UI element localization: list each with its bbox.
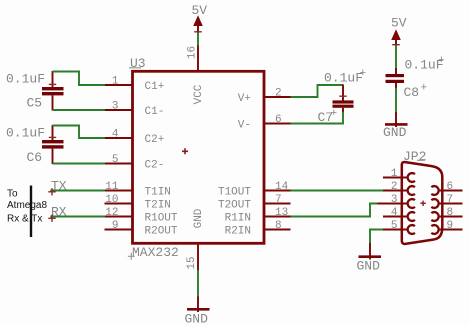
svg-text:4: 4 — [391, 207, 398, 219]
svg-text:7: 7 — [447, 194, 454, 206]
svg-text:14: 14 — [275, 181, 289, 193]
wire C5 to pin1 — [53, 72, 106, 86]
JP2 pin 6 socket arc — [431, 186, 438, 195]
pin 6 stub — [264, 123, 291, 125]
svg-text:8: 8 — [447, 207, 454, 219]
svg-text:R1OUT: R1OUT — [145, 212, 178, 224]
wire 5V to C8 — [395, 46, 397, 70]
svg-text:C2+: C2+ — [145, 134, 165, 146]
pin 11 stub — [105, 190, 134, 192]
svg-text:GND: GND — [383, 125, 407, 140]
svg-text:V-: V- — [238, 119, 251, 131]
svg-text:0.1uF: 0.1uF — [6, 71, 45, 86]
svg-text:5: 5 — [112, 154, 119, 166]
svg-text:10: 10 — [105, 194, 118, 206]
connector JP2 body outline — [402, 162, 443, 244]
wire pin13 to JP2 pin3 — [291, 204, 379, 217]
wire pin15 to GND — [197, 270, 199, 297]
C5 top lead — [52, 71, 54, 87]
pin 13 stub — [264, 216, 291, 218]
svg-text:C1+: C1+ — [145, 81, 165, 93]
wire C6 to pin5 — [53, 163, 106, 165]
svg-text:C8: C8 — [404, 85, 420, 100]
svg-text:0.1uF: 0.1uF — [6, 125, 45, 140]
JP2 pin 1 socket arc — [408, 173, 415, 182]
svg-text:+: + — [360, 68, 367, 80]
svg-text:+: + — [438, 55, 445, 67]
svg-text:4: 4 — [112, 129, 119, 141]
svg-text:5V: 5V — [192, 3, 208, 18]
wire RX to pin12 — [50, 216, 105, 218]
svg-text:GND: GND — [357, 259, 381, 274]
C6 top lead — [52, 125, 54, 140]
svg-text:T1IN: T1IN — [145, 186, 171, 198]
pin 4 stub — [105, 137, 134, 139]
RX net end cross — [48, 215, 55, 222]
svg-text:+: + — [331, 108, 338, 120]
wire pin2 to C7 — [291, 85, 344, 97]
svg-text:3: 3 — [112, 101, 119, 113]
JP2 pin 9 socket arc — [431, 225, 438, 234]
svg-text:12: 12 — [105, 207, 118, 219]
IC U3 MAX232 body — [133, 71, 265, 243]
svg-text:5: 5 — [391, 220, 398, 232]
svg-text:U3: U3 — [130, 56, 146, 71]
svg-text:7: 7 — [275, 194, 282, 206]
svg-text:C1-: C1- — [145, 106, 165, 118]
JP2 pin 7 socket arc — [431, 199, 438, 208]
JP2 pin 4 socket arc — [408, 212, 415, 221]
5V pin cross (right) — [392, 44, 400, 46]
pin 3 stub — [105, 109, 134, 111]
svg-text:5V: 5V — [391, 15, 407, 30]
JP2 pin 6 line — [438, 190, 463, 192]
capacitor C7 bottom plate — [333, 105, 354, 108]
pin 16 stub — [197, 45, 199, 72]
C5 polarity plus — [49, 83, 56, 85]
pin 8 stub — [264, 229, 291, 231]
wire 5V to pin16 — [197, 33, 199, 46]
svg-text:GND: GND — [193, 208, 205, 228]
GND stem (right) — [395, 112, 397, 127]
GND stem (bottom) — [197, 297, 199, 313]
svg-text:C2-: C2- — [145, 159, 165, 171]
C7 top lead — [342, 85, 344, 101]
JP2 pin 9 line — [438, 229, 463, 231]
svg-text:C6: C6 — [27, 150, 43, 165]
capacitor C6 bottom plate — [42, 145, 64, 148]
pin 14 stub — [264, 190, 291, 192]
pin 5 stub — [105, 163, 134, 165]
svg-text:+: + — [421, 83, 428, 95]
TX net end cross — [48, 188, 55, 195]
capacitor C6 top plate — [42, 140, 64, 143]
wire C5 to pin3 — [53, 109, 106, 111]
JP2 pin 5 socket arc — [408, 225, 415, 234]
JP2 pin 5 line — [383, 229, 408, 231]
svg-text:R1IN: R1IN — [225, 212, 251, 224]
C7 bottom lead — [342, 108, 344, 113]
pin 9 stub — [105, 229, 134, 231]
svg-text:11: 11 — [105, 181, 119, 193]
svg-text:9: 9 — [447, 220, 454, 232]
supply 5V arrow (right) — [391, 29, 401, 40]
svg-text:R2OUT: R2OUT — [145, 225, 178, 237]
svg-text:2: 2 — [275, 88, 282, 100]
C8 top lead — [395, 68, 397, 74]
pin 1 stub — [105, 84, 134, 86]
JP2 pin 4 line — [383, 216, 408, 218]
wire JP2 pin5 to GND — [370, 230, 384, 245]
wire pin6 to C7 — [291, 112, 344, 124]
svg-text:To: To — [7, 189, 18, 200]
JP2 pin 3 line — [378, 203, 409, 205]
annotation vertical bar — [30, 186, 32, 238]
pin 10 stub — [105, 203, 134, 205]
JP2 pin 3 socket arc — [408, 199, 415, 208]
svg-text:13: 13 — [275, 207, 288, 219]
svg-text:8: 8 — [275, 220, 282, 232]
svg-text:Atmega8: Atmega8 — [7, 200, 47, 211]
pin 7 stub — [264, 203, 291, 205]
svg-text:T2IN: T2IN — [145, 199, 171, 211]
svg-text:VCC: VCC — [193, 84, 205, 104]
JP2 pin 2 line — [383, 190, 408, 192]
U3 underline — [129, 67, 141, 69]
supply 5V arrow (left) — [193, 15, 203, 26]
svg-text:15: 15 — [186, 256, 198, 269]
svg-text:MAX232: MAX232 — [132, 245, 179, 260]
svg-text:3: 3 — [391, 194, 398, 206]
capacitor C5 bottom plate — [42, 92, 64, 95]
capacitor C5 top plate — [42, 87, 64, 90]
svg-text:C5: C5 — [27, 96, 43, 111]
C5 bottom lead — [52, 95, 54, 110]
svg-text:1: 1 — [391, 168, 398, 180]
JP2 pin 1 line — [383, 177, 408, 179]
JP2 pin 7 line — [438, 203, 463, 205]
ground symbol (right) — [385, 123, 408, 126]
svg-text:16: 16 — [187, 46, 199, 59]
svg-text:Rx & Tx: Rx & Tx — [7, 214, 42, 225]
ground symbol (JP2) — [359, 255, 382, 258]
JP2 center cross — [420, 201, 425, 206]
C6 bottom lead — [52, 149, 54, 164]
wire TX to pin11 — [50, 190, 105, 192]
C6 polarity plus — [49, 136, 56, 138]
svg-text:0.1uF: 0.1uF — [324, 71, 363, 86]
U3 part origin cross — [182, 148, 188, 154]
MAX232 origin cross — [128, 253, 135, 260]
svg-text:6: 6 — [275, 114, 282, 126]
capacitor C7 top plate — [333, 100, 354, 103]
svg-text:1: 1 — [112, 76, 119, 88]
pin 12 stub — [105, 216, 134, 218]
capacitor C8 top plate — [386, 74, 405, 77]
ground symbol (bottom) — [187, 308, 210, 311]
wire C8 to GND — [395, 88, 397, 113]
svg-text:GND: GND — [185, 311, 209, 326]
JP2 pin 8 socket arc — [431, 212, 438, 221]
svg-text:R2IN: R2IN — [225, 225, 251, 237]
JP2 pin 8 line — [438, 216, 463, 218]
svg-text:6: 6 — [447, 181, 454, 193]
svg-text:V+: V+ — [238, 93, 251, 105]
JP2 pin 2 socket arc — [408, 186, 415, 195]
svg-text:T2OUT: T2OUT — [218, 199, 251, 211]
wire C6 to pin4 — [53, 126, 106, 139]
svg-text:T1OUT: T1OUT — [218, 186, 251, 198]
C7 polarity plus — [339, 95, 346, 97]
svg-text:2: 2 — [391, 181, 398, 193]
GND stem (JP2) — [369, 243, 371, 260]
wire pin14 to JP2 pin2 — [291, 190, 388, 192]
svg-text:9: 9 — [112, 220, 119, 232]
JP2 underline — [417, 159, 425, 161]
capacitor C8 bottom plate — [386, 80, 405, 83]
pin 15 stub — [197, 244, 199, 271]
C8 bottom lead — [395, 83, 397, 89]
5V pin cross (left) — [194, 31, 202, 33]
pin 2 stub — [264, 96, 291, 98]
